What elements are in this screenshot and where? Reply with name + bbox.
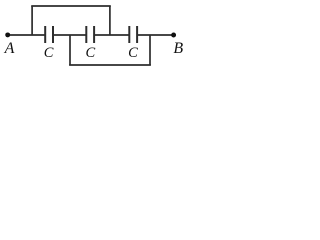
node B terminal dot [171, 33, 176, 38]
svg-text:A: A [4, 40, 15, 57]
capacitor C1 plates [44, 26, 46, 43]
wire: right bottom riser [149, 35, 151, 65]
capacitor C3 plates [128, 26, 130, 43]
svg-text:B: B [173, 40, 183, 57]
wire: top horizontal bridge [31, 5, 111, 7]
svg-text:C: C [128, 45, 138, 61]
svg-text:C: C [44, 45, 54, 61]
node A terminal dot [5, 32, 10, 37]
wire: middle horizontal C3 to B [138, 34, 174, 36]
wire: middle horizontal C1 to C2 [54, 34, 86, 36]
wire: left top riser [31, 6, 33, 35]
svg-text:C: C [86, 45, 96, 61]
wire: middle horizontal C2 to C3 [95, 34, 129, 36]
wire: right top riser [109, 6, 111, 35]
wire: bottom horizontal bridge [69, 64, 151, 66]
wire: middle horizontal A to C1 [8, 34, 45, 36]
capacitor C2 plates [85, 26, 87, 43]
wire: left bottom riser [69, 35, 71, 65]
